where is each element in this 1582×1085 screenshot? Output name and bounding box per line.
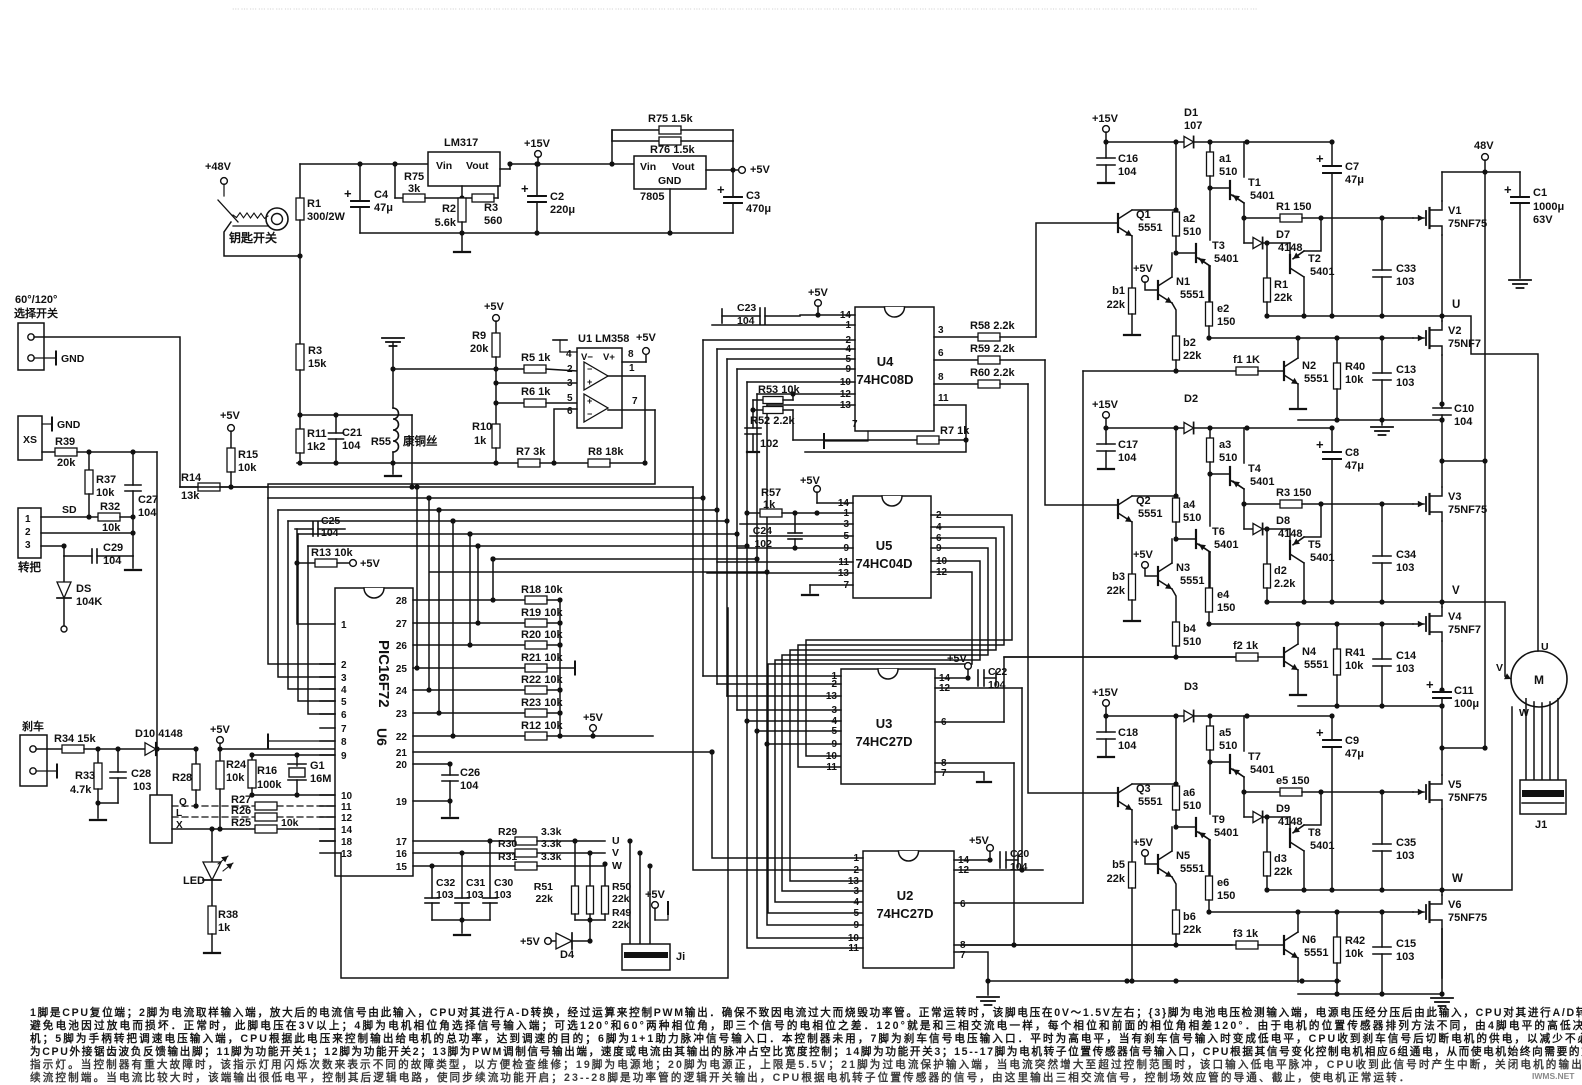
svg-text:+5V: +5V — [360, 558, 381, 570]
power terminal +5V (supply out) — [739, 167, 746, 174]
wire osc pin9 rail — [252, 754, 335, 756]
svg-text:Ji: Ji — [676, 951, 685, 963]
pin 8 +5V of U1 — [622, 361, 646, 363]
resistor R58 2.2k — [978, 333, 1000, 341]
resistor R16 100k — [251, 755, 253, 760]
svg-text:R14: R14 — [181, 472, 202, 484]
svg-text:R29: R29 — [498, 826, 517, 838]
svg-text:+5V: +5V — [210, 724, 231, 736]
svg-text:V5: V5 — [1448, 779, 1461, 791]
svg-text:15k: 15k — [308, 358, 327, 370]
svg-text:510: 510 — [1219, 452, 1237, 464]
svg-text:R75 1.5k: R75 1.5k — [648, 113, 694, 125]
svg-text:74HC08D: 74HC08D — [856, 372, 913, 387]
svg-text:D1: D1 — [1184, 107, 1198, 119]
svg-text:150: 150 — [1217, 890, 1235, 902]
cap ground rail — [432, 919, 490, 921]
wire brake line to CPU — [220, 748, 335, 750]
low side rail phase V — [1298, 705, 1442, 707]
resistor e4 150 — [1208, 552, 1210, 588]
wire LM317 ADJ to R2 — [461, 186, 463, 198]
svg-text:5401: 5401 — [1250, 764, 1274, 776]
svg-text:N1: N1 — [1176, 276, 1190, 288]
wire U3 pin9 — [767, 743, 841, 745]
svg-text:f3 1k: f3 1k — [1233, 928, 1259, 940]
resistor R3 15k — [299, 256, 301, 344]
FET column phase U — [1441, 235, 1443, 321]
svg-text:V6: V6 — [1448, 899, 1461, 911]
trunk vertical x747 — [746, 382, 748, 721]
gate-source capacitor C35 103 — [1381, 792, 1383, 844]
svg-text:+5V: +5V — [808, 287, 829, 299]
power terminal +5V phase V — [1142, 562, 1149, 569]
wire U3 pin3 — [737, 709, 841, 711]
ground below N2 — [1290, 408, 1306, 410]
svg-text:a1: a1 — [1219, 153, 1231, 165]
svg-text:R40: R40 — [1345, 361, 1365, 373]
svg-text:+15V: +15V — [1092, 399, 1119, 411]
svg-text:47μ: 47μ — [1345, 174, 1364, 186]
svg-text:17: 17 — [396, 837, 408, 848]
svg-text:f1 1K: f1 1K — [1233, 354, 1260, 366]
svg-text:+5V: +5V — [750, 164, 771, 176]
svg-text:1: 1 — [629, 363, 635, 374]
svg-text:20: 20 — [396, 760, 408, 771]
svg-text:22k: 22k — [1107, 585, 1126, 597]
wire V phase to motor — [1442, 602, 1505, 676]
svg-text:7: 7 — [852, 419, 858, 430]
IC LM317 regulator — [428, 152, 500, 186]
resistor R29 3.3k — [515, 837, 537, 845]
resistor R37 10k — [88, 452, 90, 470]
svg-text:R52 2.2k: R52 2.2k — [750, 415, 796, 427]
svg-text:11: 11 — [826, 762, 837, 773]
bus line H y572 — [430, 571, 767, 573]
svg-text:C31: C31 — [466, 877, 485, 889]
svg-text:1k: 1k — [474, 435, 487, 447]
wire U5 pin13 — [707, 572, 853, 574]
svg-text:R6 1k: R6 1k — [521, 386, 551, 398]
svg-text:R12 10k: R12 10k — [521, 720, 563, 732]
capacitor C31 103 — [461, 853, 463, 898]
svg-text:d3: d3 — [1274, 853, 1287, 865]
svg-text:GND: GND — [57, 419, 81, 431]
svg-text:R1: R1 — [307, 198, 321, 210]
svg-text:N2: N2 — [1302, 360, 1316, 372]
svg-text:D2: D2 — [1184, 393, 1198, 405]
capacitor C30 103 — [489, 841, 491, 898]
resistor R25 10k — [255, 825, 277, 833]
svg-text:+5V: +5V — [800, 475, 821, 487]
diode D4 — [589, 920, 591, 941]
ground bracket at pin8 — [268, 740, 335, 742]
resistor R14 13k — [180, 486, 198, 488]
svg-text:1: 1 — [341, 620, 347, 631]
svg-text:3: 3 — [853, 886, 859, 897]
capacitor C20 104 — [999, 852, 1001, 868]
svg-text:XS: XS — [23, 434, 37, 446]
svg-text:510: 510 — [1219, 166, 1237, 178]
connector Ji — [622, 944, 670, 970]
svg-text:5401: 5401 — [1250, 190, 1274, 202]
svg-text:6: 6 — [938, 348, 944, 359]
svg-text:100μ: 100μ — [1454, 698, 1479, 710]
resistor R21 10k — [525, 664, 547, 672]
svg-text:16: 16 — [396, 849, 408, 860]
gate-source capacitor C33 103 — [1381, 218, 1383, 270]
svg-text:康铜丝: 康铜丝 — [403, 434, 438, 448]
svg-text:5: 5 — [853, 908, 859, 919]
wire U5 pin14 — [817, 502, 853, 504]
svg-text:27: 27 — [396, 619, 408, 630]
capacitor C3 470u — [732, 170, 734, 196]
svg-text:47μ: 47μ — [1345, 460, 1364, 472]
svg-text:+5V: +5V — [947, 653, 968, 665]
svg-text:104: 104 — [1454, 416, 1473, 428]
svg-text:C23: C23 — [737, 302, 756, 314]
sense rail to R5 — [393, 368, 524, 370]
svg-text:R20 10k: R20 10k — [521, 629, 563, 641]
svg-text:R15: R15 — [238, 449, 258, 461]
svg-text:为CPU外接锯齿波负反馈输出脚；11脚为功能开关1；12脚为: 为CPU外接锯齿波负反馈输出脚；11脚为功能开关1；12脚为功能开关2；13脚为… — [30, 1045, 1582, 1058]
resistor R33 4.7k — [97, 749, 99, 763]
svg-text:22k: 22k — [612, 919, 630, 931]
svg-text:GND: GND — [658, 175, 682, 187]
wire U3 pin6 to f2 — [1004, 657, 1236, 722]
resistor R27 — [255, 802, 277, 810]
wire U5 pin10 wrap — [775, 561, 980, 902]
resistor R7b 1k — [793, 439, 917, 441]
wire LM317 Vout to +15V — [500, 168, 510, 170]
svg-text:−: − — [587, 409, 592, 419]
wire U4 pin4 — [717, 348, 855, 350]
svg-text:+15V: +15V — [1092, 687, 1119, 699]
svg-text:D3: D3 — [1184, 681, 1198, 693]
svg-text:续流控制端。当电流比较大时，该端输出很低电平，控制其后逻辑电: 续流控制端。当电流比较大时，该端输出很低电平，控制其后逻辑电路，使同步续流功能开… — [30, 1071, 1412, 1084]
svg-text:转把: 转把 — [18, 560, 41, 574]
wire W phase to motor — [1442, 707, 1512, 890]
svg-text:22k: 22k — [1274, 866, 1293, 878]
resistor R6 1k — [496, 402, 524, 404]
svg-text:10k: 10k — [96, 487, 115, 499]
wire hall X — [172, 828, 255, 830]
MOSFET V6 75NF75 — [1413, 911, 1424, 913]
wire pin 15 line — [413, 865, 515, 867]
svg-text:V−: V− — [581, 352, 593, 363]
resistor R1 300/2W — [299, 164, 301, 198]
svg-text:104: 104 — [1118, 452, 1137, 464]
svg-text:C35: C35 — [1396, 837, 1416, 849]
svg-text:24: 24 — [396, 686, 408, 697]
resistor R3 560 — [466, 197, 472, 199]
svg-text:104: 104 — [103, 555, 122, 567]
transistor T9 5401 PNP — [1176, 826, 1196, 828]
svg-text:+5V: +5V — [1133, 837, 1154, 849]
svg-text:N3: N3 — [1176, 562, 1190, 574]
svg-text:R37: R37 — [96, 474, 116, 486]
wire U4 pin13 — [767, 404, 855, 406]
main power ground — [1441, 929, 1443, 996]
resistor R15 10k — [230, 431, 232, 448]
resistor b2 22k — [1173, 336, 1180, 360]
resistor e2 150 — [1208, 266, 1210, 302]
svg-text:8: 8 — [628, 349, 634, 360]
wire R75 branch — [394, 164, 396, 198]
resistor a1 510 — [1209, 142, 1211, 152]
resistor R53 10k — [753, 399, 763, 401]
bus line E y534 — [298, 533, 737, 535]
wire pin 21 to trunk — [413, 751, 712, 753]
power terminal +5V above R24 — [217, 737, 224, 744]
low side gate line phase U — [1209, 337, 1413, 339]
bus line G y559 — [493, 558, 757, 560]
IC U5 74HC04D — [853, 496, 931, 598]
svg-text:14: 14 — [341, 825, 353, 836]
svg-text:5401: 5401 — [1214, 253, 1238, 265]
svg-text:104: 104 — [321, 527, 339, 539]
svg-text:22k: 22k — [1274, 292, 1293, 304]
svg-text:1: 1 — [25, 514, 31, 525]
svg-text:104: 104 — [1118, 740, 1137, 752]
wire hall L dashed — [172, 816, 255, 818]
svg-text:12: 12 — [341, 813, 353, 824]
gate-source capacitor C14 103 — [1381, 624, 1383, 659]
IC U6 PIC16F72 microcontroller — [335, 588, 413, 876]
resistor R1 22k — [1266, 243, 1268, 278]
wire U3 pin13 — [727, 695, 841, 697]
ground tick at XS — [42, 423, 52, 425]
svg-text:Q3: Q3 — [1136, 783, 1151, 795]
phase node line U — [1267, 315, 1442, 317]
svg-text:Vout: Vout — [466, 160, 489, 172]
bus line A y487 — [180, 486, 693, 488]
ground below C17 — [1098, 468, 1114, 470]
connector XS — [18, 416, 42, 460]
fan verticals pins to bus — [490, 597, 495, 602]
svg-text:a5: a5 — [1219, 727, 1231, 739]
driver phase W — [962, 681, 1487, 997]
ground below C16 — [1098, 182, 1114, 184]
svg-text:b3: b3 — [1112, 571, 1125, 583]
resistor R50 22k — [589, 853, 591, 886]
svg-text:6: 6 — [567, 406, 573, 417]
svg-text:a3: a3 — [1219, 439, 1231, 451]
svg-text:10k: 10k — [226, 772, 245, 784]
svg-text:5551: 5551 — [1138, 508, 1162, 520]
svg-text:b4: b4 — [1183, 623, 1197, 635]
svg-text:IWMS.NET: IWMS.NET — [1532, 1071, 1575, 1081]
svg-text:T7: T7 — [1248, 751, 1261, 763]
svg-text:3: 3 — [25, 540, 31, 551]
resistor b5 22k — [1129, 862, 1136, 888]
wire R58 to Q1 base — [1036, 223, 1118, 337]
svg-text:C18: C18 — [1118, 727, 1138, 739]
svg-text:R5 1k: R5 1k — [521, 352, 551, 364]
svg-text:N5: N5 — [1176, 850, 1190, 862]
svg-text:+: + — [1316, 725, 1324, 740]
svg-text:GND: GND — [61, 353, 85, 365]
capacitor C26 104 — [449, 764, 451, 775]
svg-text:13: 13 — [341, 849, 353, 860]
ground below b1 — [1131, 314, 1133, 334]
feedback wire to pin 6 — [554, 409, 577, 463]
phase node line V — [1267, 601, 1442, 603]
svg-text:D4: D4 — [560, 949, 575, 961]
svg-text:T2: T2 — [1308, 253, 1321, 265]
svg-text:6: 6 — [960, 899, 966, 910]
ground at R55 top — [382, 337, 404, 339]
svg-text:b6: b6 — [1183, 911, 1196, 923]
wire V1 drain up — [1441, 172, 1443, 201]
bus line F y546 — [308, 545, 747, 547]
svg-text:R13 10k: R13 10k — [311, 547, 353, 559]
resistor b1 22k — [1129, 288, 1136, 314]
svg-text:R55: R55 — [371, 436, 391, 448]
resistor R76 1.5k — [612, 140, 659, 142]
svg-text:25: 25 — [396, 664, 408, 675]
power terminal +5V at R15 — [228, 425, 235, 432]
resistor R11 1k2 — [299, 415, 301, 429]
svg-text:103: 103 — [1396, 562, 1414, 574]
diode D7 4148 — [1243, 218, 1245, 243]
ground tick at selector — [34, 357, 56, 359]
svg-text:+5V: +5V — [636, 332, 657, 344]
svg-text:e2: e2 — [1217, 303, 1229, 315]
bootstrap capacitor C8 47u — [1331, 428, 1333, 452]
svg-text:5.6k: 5.6k — [435, 217, 457, 229]
resistor R75 3k — [403, 194, 425, 202]
wire R52 to R7 line — [792, 410, 794, 440]
svg-text:1脚是CPU复位端；2脚为电流取样输入端，放大后的电流信号由: 1脚是CPU复位端；2脚为电流取样输入端，放大后的电流信号由此输入，CPU对其进… — [30, 1006, 1582, 1019]
svg-text:避免电池因过放电而损坏．正常时，此脚电压在3V以上；4脚为电: 避免电池因过放电而损坏．正常时，此脚电压在3V以上；4脚为电机相位角选择信号输入… — [29, 1019, 1582, 1032]
svg-text:a6: a6 — [1183, 787, 1195, 799]
svg-text:f2 1k: f2 1k — [1233, 640, 1259, 652]
capacitor C21 104 — [300, 414, 336, 416]
wire pin 22 line — [413, 735, 525, 737]
svg-text:5551: 5551 — [1304, 947, 1328, 959]
svg-text:U3: U3 — [876, 716, 893, 731]
left wrap wires pins 2-6 — [268, 498, 335, 664]
svg-text:5401: 5401 — [1310, 552, 1334, 564]
svg-text:+5V: +5V — [969, 835, 990, 847]
svg-text:C28: C28 — [131, 768, 151, 780]
ground below R33 — [97, 803, 99, 818]
svg-text:C27: C27 — [138, 494, 158, 506]
svg-text:5551: 5551 — [1304, 373, 1328, 385]
diode D8 4148 — [1243, 504, 1245, 529]
svg-text:7: 7 — [341, 724, 347, 735]
svg-text:75NF7: 75NF7 — [1448, 624, 1481, 636]
bottom ground rail right — [988, 980, 1340, 982]
motor M — [1511, 651, 1567, 707]
MOSFET V5 75NF75 — [1413, 791, 1424, 793]
wire U5 pin7 ground — [810, 584, 853, 586]
svg-text:W: W — [1452, 873, 1463, 885]
svg-text:15: 15 — [396, 862, 408, 873]
diode D3 on rail — [1184, 710, 1194, 721]
transistor T5 5401 PNP — [1289, 529, 1291, 542]
transistor T8 5401 PNP — [1289, 817, 1291, 830]
svg-text:R30: R30 — [498, 838, 517, 850]
transistor T1 5401 PNP — [1210, 187, 1230, 189]
svg-text:+5V: +5V — [520, 936, 541, 948]
svg-text:⋯⋯⋯⋯⋯⋯⋯⋯⋯⋯⋯⋯⋯⋯⋯⋯⋯⋯⋯⋯⋯⋯⋯⋯⋯⋯⋯⋯⋯⋯: ⋯⋯⋯⋯⋯⋯⋯⋯⋯⋯⋯⋯⋯⋯⋯⋯⋯⋯⋯⋯⋯⋯⋯⋯⋯⋯⋯⋯⋯⋯⋯⋯⋯⋯⋯⋯⋯⋯⋯⋯… — [232, 4, 1259, 13]
wire +15V to 7805 — [612, 163, 634, 165]
svg-text:T1: T1 — [1248, 177, 1261, 189]
bus line C y510 — [278, 509, 717, 511]
svg-text:W: W — [1519, 707, 1529, 719]
wire pin 23 to ladder — [413, 712, 525, 714]
ground rail below C27 — [132, 556, 134, 568]
svg-text:T5: T5 — [1308, 539, 1321, 551]
resistor R60 2.2k — [978, 380, 1000, 388]
resistor R75b 1.5k — [612, 130, 659, 164]
svg-text:指示灯。当控制器有重大故障时，该指示灯用闪烁次数来表示不同的: 指示灯。当控制器有重大故障时，该指示灯用闪烁次数来表示不同的故障类型，以方便检查… — [30, 1058, 1582, 1071]
svg-text:26: 26 — [396, 641, 408, 652]
svg-text:e4: e4 — [1217, 589, 1230, 601]
low side input line f1 1k — [1083, 370, 1236, 372]
svg-text:钥匙开关: 钥匙开关 — [229, 230, 277, 245]
wire U5 pin5 — [750, 535, 853, 537]
MOSFET V4 75NF7 — [1413, 623, 1424, 625]
wire U5 pin9 wrap — [782, 548, 988, 891]
svg-text:22k: 22k — [1107, 299, 1126, 311]
resistor R7 3k — [518, 459, 540, 467]
svg-text:2: 2 — [25, 527, 31, 538]
svg-text:+5V: +5V — [1133, 263, 1154, 275]
svg-text:U: U — [1452, 299, 1460, 311]
wire throttle pin3 — [41, 545, 64, 547]
svg-text:R16: R16 — [257, 765, 277, 777]
resistor R38 1k — [211, 880, 213, 906]
svg-text:U5: U5 — [876, 538, 893, 553]
svg-text:U: U — [1541, 641, 1549, 653]
transistor T3 5401 PNP — [1176, 252, 1196, 254]
svg-text:5551: 5551 — [1180, 863, 1204, 875]
svg-text:103: 103 — [494, 889, 512, 901]
svg-text:T6: T6 — [1212, 526, 1225, 538]
svg-text:104: 104 — [138, 507, 157, 519]
wire U4 pin10 — [747, 381, 855, 383]
svg-text:470μ: 470μ — [746, 203, 771, 215]
svg-text:+15V: +15V — [524, 138, 551, 150]
wire key switch to R1 node — [224, 222, 300, 256]
transistor Q3 5551 NPN — [1117, 788, 1119, 806]
svg-text:+: + — [1504, 182, 1512, 197]
power terminal +15V phase U — [1103, 126, 1110, 133]
capacitor C22 104 — [977, 670, 979, 686]
svg-text:T9: T9 — [1212, 814, 1225, 826]
svg-text:Vout: Vout — [672, 161, 695, 173]
wire R12 net right — [593, 735, 653, 737]
svg-text:47μ: 47μ — [374, 202, 393, 214]
power terminal +5V at U5 — [814, 486, 821, 493]
+15V rail phase U — [1106, 141, 1332, 143]
svg-text:104: 104 — [342, 440, 361, 452]
wire U3 pin2 — [717, 683, 841, 685]
svg-text:R38: R38 — [218, 909, 238, 921]
wire pin 24 to ladder — [413, 689, 525, 691]
wire U5 pin2 wrap — [806, 515, 1012, 756]
svg-text:5401: 5401 — [1214, 539, 1238, 551]
wire U phase to motor — [1442, 316, 1538, 651]
resistor R22 10k — [525, 686, 547, 694]
svg-text:V2: V2 — [1448, 325, 1461, 337]
svg-text:104: 104 — [988, 679, 1006, 691]
capacitor C24 102 — [794, 513, 796, 533]
svg-text:5401: 5401 — [1310, 840, 1334, 852]
wire U3 pin4 — [747, 720, 841, 722]
